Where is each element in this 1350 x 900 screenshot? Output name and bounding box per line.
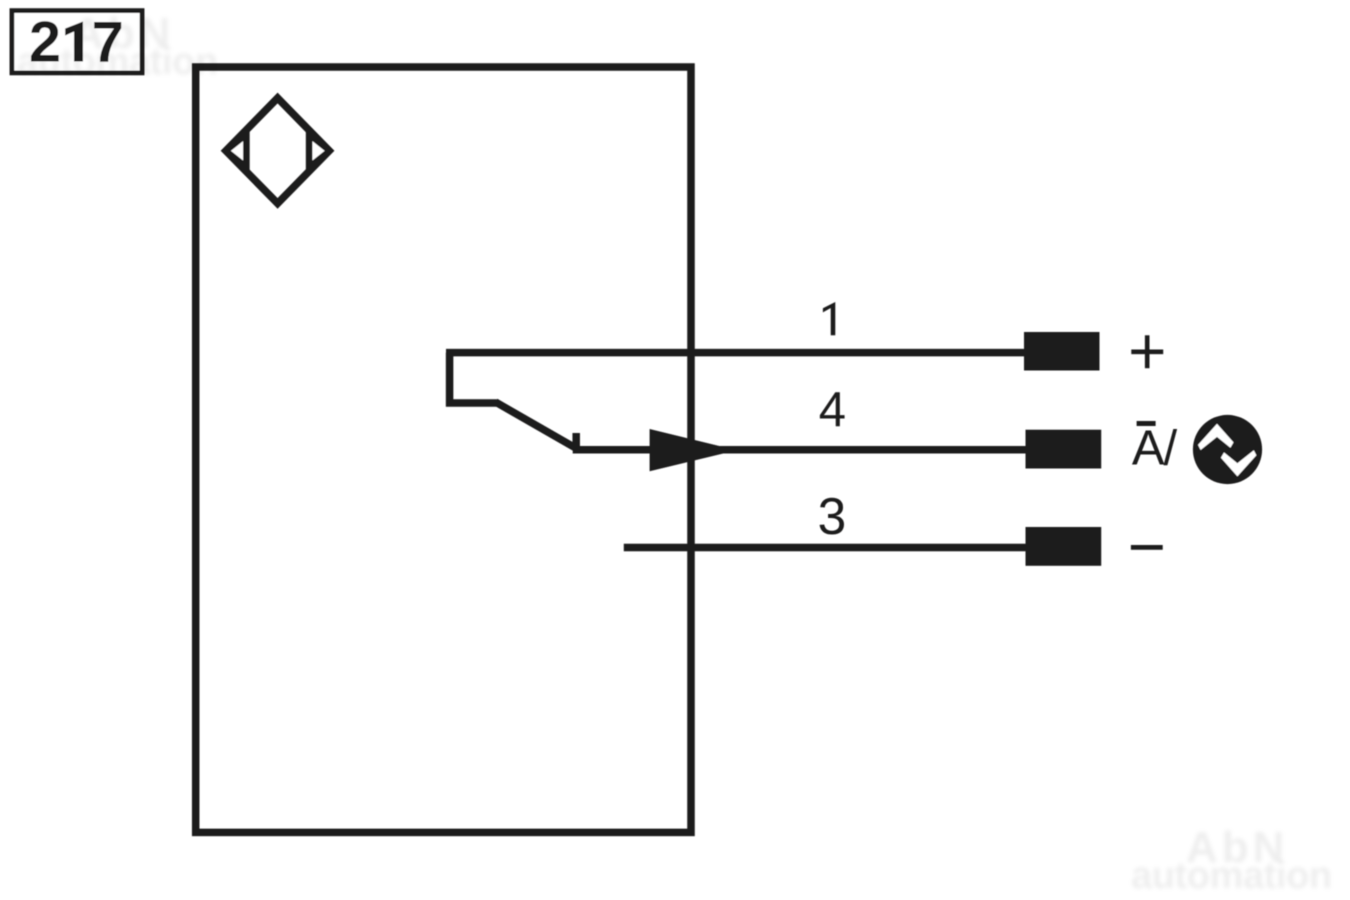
right vertical bar bbox=[306, 130, 314, 171]
switching function icon (circle with chevrons) bbox=[1193, 415, 1262, 484]
terminal 1 bbox=[1024, 332, 1100, 371]
left triangle bbox=[227, 137, 245, 166]
switch lever (diagonal contact arm) bbox=[496, 402, 577, 449]
left vertical bar bbox=[242, 130, 250, 171]
switch contact tick bbox=[572, 433, 580, 450]
output label A-bar/ bbox=[1132, 422, 1178, 476]
figure number box 217 bbox=[12, 11, 142, 75]
svg-text:automation: automation bbox=[17, 41, 218, 83]
plus symbol (supply +) bbox=[1131, 335, 1163, 368]
output arrow bbox=[650, 429, 737, 471]
inductive sensor symbol (diamond) bbox=[226, 98, 329, 203]
svg-text:4: 4 bbox=[819, 383, 846, 437]
watermark AbN automation (top-left, overlay) bbox=[17, 9, 218, 83]
wire 4 (horizontal to terminal 4) bbox=[573, 446, 1026, 454]
right triangle bbox=[310, 137, 328, 166]
svg-text:/: / bbox=[1164, 422, 1178, 476]
svg-text:3: 3 bbox=[818, 487, 847, 545]
svg-text:A: A bbox=[1132, 422, 1165, 476]
diamond outline bbox=[226, 98, 329, 203]
pin label 1 bbox=[823, 302, 835, 335]
wire: switch left vertical drop bbox=[450, 353, 497, 403]
wire 3 (horizontal to terminal 3) bbox=[624, 544, 1026, 552]
terminal 3 bbox=[1026, 527, 1102, 566]
terminal 4 bbox=[1026, 430, 1102, 469]
wire 1 (horizontal to terminal 1) bbox=[446, 349, 1026, 357]
sensor body rectangle bbox=[196, 67, 691, 832]
svg-text:automation: automation bbox=[1131, 855, 1332, 897]
watermark AbN automation (bottom-right, overlay) bbox=[1131, 823, 1332, 897]
minus symbol (supply -) bbox=[1131, 545, 1163, 550]
